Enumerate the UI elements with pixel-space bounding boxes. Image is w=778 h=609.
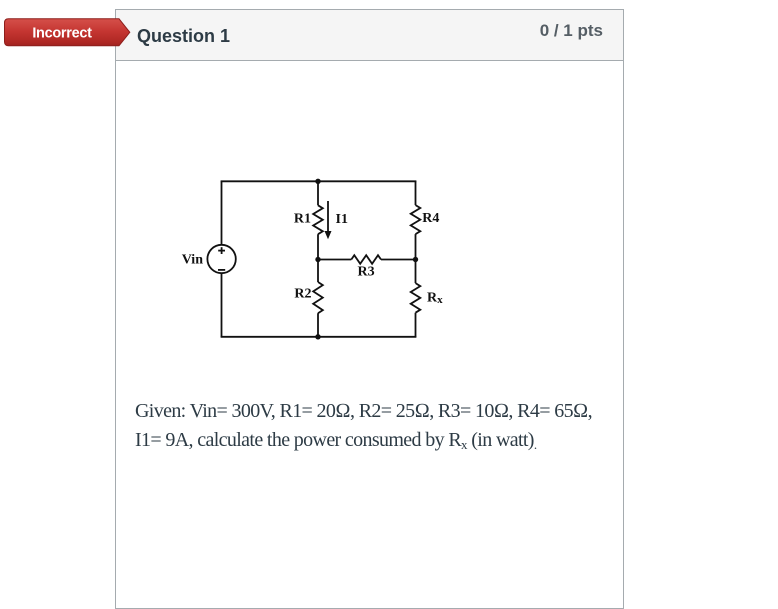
wire top rail <box>221 180 417 182</box>
svg-text:I1: I1 <box>336 212 348 227</box>
wire mid horizontal right <box>381 259 416 261</box>
current arrow I1 <box>325 201 332 239</box>
circuit schematic <box>175 168 450 348</box>
svg-text:Incorrect: Incorrect <box>32 26 92 42</box>
svg-text:R1: R1 <box>294 212 311 227</box>
resistor R4 <box>411 205 421 234</box>
node junction middle <box>315 257 320 262</box>
resistor R3 <box>351 255 381 264</box>
svg-text:R2: R2 <box>294 286 311 301</box>
resistor R2 <box>313 282 323 313</box>
wire middle branch center <box>317 234 319 282</box>
wire right branch center <box>415 234 417 283</box>
wire mid horizontal left <box>318 259 351 261</box>
wire middle branch lower <box>317 313 319 337</box>
wire right branch upper <box>415 181 417 205</box>
wire bottom rail <box>221 336 417 338</box>
node junction bottom <box>315 334 320 339</box>
node junction top <box>315 179 320 184</box>
question text <box>135 397 592 457</box>
node junction right <box>413 257 418 262</box>
wire left upper <box>221 181 223 244</box>
wire middle branch upper <box>317 181 319 205</box>
resistor Rx <box>411 283 421 313</box>
svg-text:Rx: Rx <box>427 291 443 307</box>
incorrect ribbon <box>0 17 134 48</box>
resistor R1 <box>313 205 323 234</box>
svg-text:R3: R3 <box>358 264 375 279</box>
wire right branch lower <box>415 313 417 337</box>
svg-text:Vin: Vin <box>182 252 203 267</box>
voltage source Vin <box>207 245 235 273</box>
wire left lower <box>221 274 223 337</box>
svg-text:R4: R4 <box>422 211 439 226</box>
question box <box>115 9 624 609</box>
